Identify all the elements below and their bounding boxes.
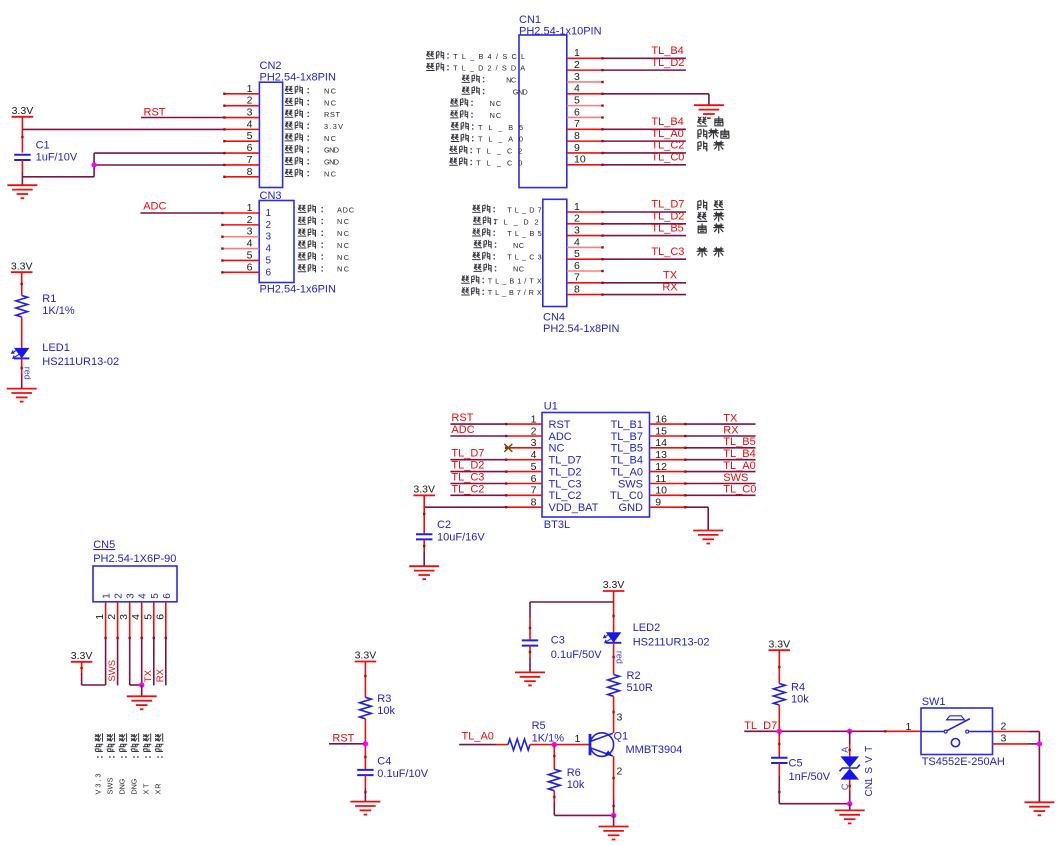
resistor R5	[508, 739, 530, 750]
svg-text:TL_C2: TL_C2	[451, 483, 484, 495]
svg-text:TL_C2: TL_C2	[476, 146, 522, 155]
wire CN5 pin4 to gnd	[141, 638, 143, 685]
svg-text:1: 1	[102, 593, 113, 599]
svg-text:4: 4	[574, 83, 580, 95]
svg-text:C5: C5	[789, 757, 803, 769]
U1 pin 2 (left)	[506, 435, 542, 437]
U1 pin 14 (right)	[650, 447, 686, 449]
svg-text:TL_B4: TL_B4	[723, 448, 755, 460]
wire CN5 pin5 TX	[153, 638, 155, 686]
svg-text:RST: RST	[332, 732, 354, 744]
svg-text:GND: GND	[324, 146, 339, 155]
svg-text:3: 3	[617, 711, 623, 723]
svg-text:5: 5	[574, 95, 580, 107]
svg-text:TL_A0: TL_A0	[462, 730, 494, 742]
wire RST to R3/C4 junction	[329, 743, 365, 745]
svg-text:GND: GND	[619, 502, 644, 514]
svg-text:Q1: Q1	[614, 730, 629, 742]
U1 pin 5 (left)	[506, 471, 542, 473]
svg-text:4: 4	[138, 593, 149, 599]
svg-text:R2: R2	[627, 670, 641, 682]
svg-text:1K/1%: 1K/1%	[532, 732, 565, 744]
svg-text:4: 4	[130, 614, 142, 620]
svg-text:3: 3	[266, 232, 272, 243]
svg-text:3: 3	[126, 593, 137, 599]
no-connect X on U1 pin3	[504, 444, 512, 452]
wire RST to CN2 pin3	[141, 117, 224, 119]
svg-text:10k: 10k	[567, 779, 585, 791]
net label TL_D7 / wire CN4 pin 1	[603, 211, 687, 213]
CN3 pin 5	[222, 259, 259, 261]
net label TL_C0 / wire CN1 pin 10	[603, 164, 686, 166]
ground SW1	[1024, 801, 1054, 803]
svg-text:TL_B5: TL_B5	[611, 443, 643, 455]
CN3 pin 4	[222, 248, 259, 250]
svg-text:TL_D2: TL_D2	[549, 467, 582, 479]
wire U1 pin9 GND to ground	[685, 506, 708, 508]
net label RST / wire U1 pin 1	[450, 423, 506, 425]
svg-text:NC: NC	[324, 134, 336, 143]
U1 pin 3 (left)	[506, 447, 542, 449]
resistor R2	[608, 675, 620, 697]
svg-text:1: 1	[574, 733, 580, 745]
CN1 pin 7	[567, 128, 603, 130]
text button/light chinese CN4	[698, 200, 707, 210]
CN3 pin 6	[222, 271, 259, 273]
svg-text:C1: C1	[36, 139, 50, 151]
svg-text:CN4: CN4	[543, 311, 565, 323]
svg-text:R5: R5	[532, 720, 546, 732]
svg-text:TL_C2: TL_C2	[549, 490, 582, 502]
svg-text:13: 13	[655, 449, 667, 461]
wire U1 pin8 VDD to C2	[424, 506, 506, 508]
svg-text:4: 4	[247, 118, 253, 130]
ground C4	[350, 801, 380, 803]
svg-text:9: 9	[574, 142, 580, 154]
wire TL_D7 to SW1 pin1	[744, 730, 885, 732]
svg-text:1: 1	[266, 208, 272, 219]
svg-text:CN3: CN3	[260, 190, 282, 202]
svg-text:2: 2	[247, 95, 253, 107]
svg-text:R3: R3	[377, 693, 391, 705]
svg-text:NC: NC	[337, 217, 349, 226]
CN5 pin 5	[153, 602, 155, 638]
net label TL_B4 / wire CN1 pin 1	[603, 57, 686, 59]
CN1 pin 1	[567, 57, 603, 59]
CN1 pin 10	[567, 164, 603, 166]
svg-text:R4: R4	[791, 681, 805, 693]
CN2 pin 8	[224, 176, 259, 178]
svg-text:8: 8	[247, 166, 253, 178]
CN2 pin 5	[224, 140, 259, 142]
svg-text:6: 6	[531, 473, 537, 485]
wire CN4 pin8 RX	[603, 294, 687, 296]
net label TL_C3 / wire CN4 pin 5	[603, 258, 687, 260]
svg-text:5: 5	[142, 614, 154, 620]
svg-text:GND: GND	[324, 158, 339, 167]
svg-text:TL_B1: TL_B1	[611, 419, 643, 431]
svg-text:PH2.54-1x10PIN: PH2.54-1x10PIN	[519, 26, 602, 38]
svg-text:3: 3	[574, 71, 580, 83]
U1 pin 13 (right)	[650, 459, 686, 461]
svg-text:TL_B7/RX: TL_B7/RX	[488, 288, 542, 297]
CN2 pin 3	[224, 117, 259, 119]
CN5 pin 2	[117, 602, 119, 638]
svg-text:1: 1	[247, 83, 253, 95]
svg-text:10: 10	[574, 154, 586, 166]
svg-text:1SVT: 1SVT	[864, 746, 875, 784]
svg-text:TL_B4/SCL: TL_B4/SCL	[453, 52, 525, 61]
svg-text:NC: NC	[490, 99, 502, 108]
svg-text:RX: RX	[662, 281, 678, 293]
svg-text:TL_D2: TL_D2	[451, 460, 484, 472]
wire CN5 pin2 SWS	[117, 638, 119, 686]
net label TL_B4 / wire U1 pin 13	[685, 459, 755, 461]
svg-text:TL_C0: TL_C0	[651, 151, 684, 163]
svg-text:TL_B4: TL_B4	[611, 455, 643, 467]
svg-text:3: 3	[118, 614, 130, 620]
LED2	[613, 602, 615, 632]
svg-text:6: 6	[266, 267, 272, 278]
CN5 pin 3	[129, 602, 131, 638]
svg-text:TL_C3: TL_C3	[451, 472, 484, 484]
svg-text:10: 10	[655, 485, 667, 497]
svg-text:8: 8	[574, 130, 580, 142]
pin end markers on verticals	[21, 136, 23, 138]
ground LED1	[7, 388, 37, 390]
svg-text:1uF/10V: 1uF/10V	[36, 151, 78, 163]
svg-text:2: 2	[106, 614, 118, 620]
svg-text:0.1uF/10V: 0.1uF/10V	[377, 768, 428, 780]
svg-text:NC: NC	[337, 229, 349, 238]
svg-text:NC: NC	[513, 265, 524, 274]
svg-text:HS211UR13-02: HS211UR13-02	[42, 356, 119, 368]
svg-text:8: 8	[531, 497, 537, 509]
CN4 pin 2	[567, 223, 603, 225]
U1 pin 15 (right)	[650, 435, 686, 437]
svg-text:TL_C3: TL_C3	[651, 246, 684, 258]
capacitor C3	[522, 639, 538, 641]
svg-text:BT3L: BT3L	[544, 519, 570, 531]
svg-text:4: 4	[266, 244, 272, 255]
CN1 pin 6	[567, 116, 603, 118]
U1 pin 6 (left)	[506, 483, 542, 485]
CN2 pin 7	[224, 164, 259, 166]
CN1 pin 5	[567, 105, 603, 107]
svg-text:10k: 10k	[377, 705, 395, 717]
svg-text:4: 4	[574, 236, 580, 248]
switch SW1	[921, 708, 993, 755]
svg-text:U1: U1	[544, 401, 558, 413]
svg-text:TL_D2: TL_D2	[651, 211, 684, 223]
svg-text:TL_B5: TL_B5	[723, 436, 755, 448]
wire CN2 pin6 to gnd rail	[94, 152, 224, 154]
CN5 pin 5 silkscreen text	[143, 734, 150, 742]
ground Q1	[599, 826, 629, 828]
CN5 pin 4 silkscreen text	[131, 734, 138, 742]
LED1	[14, 348, 29, 359]
svg-text:7: 7	[574, 272, 580, 284]
net label TL_B4 / wire CN1 pin 7	[603, 128, 686, 130]
svg-text:510R: 510R	[627, 682, 653, 694]
capacitor C2	[416, 533, 432, 535]
svg-text:3.3V: 3.3V	[11, 260, 33, 272]
svg-text:RST: RST	[324, 110, 341, 119]
svg-text:2: 2	[617, 766, 623, 778]
ground C3	[515, 671, 545, 673]
svg-text:ADC: ADC	[337, 205, 354, 214]
CN1 pin 4	[567, 93, 603, 95]
net label TL_A0 / wire CN1 pin 8	[603, 140, 686, 142]
ground CN5	[127, 695, 157, 697]
svg-text:DNG: DNG	[130, 778, 139, 794]
svg-text:LED2: LED2	[633, 622, 661, 634]
svg-text:4: 4	[531, 449, 537, 461]
connector CN3	[259, 201, 294, 283]
svg-text:9: 9	[655, 497, 661, 509]
svg-text:R1: R1	[42, 293, 56, 305]
svg-text:PH2.54-1x8PIN: PH2.54-1x8PIN	[543, 323, 619, 335]
net label TL_C3 / wire U1 pin 6	[450, 483, 506, 485]
svg-text:10uF/16V: 10uF/16V	[437, 532, 485, 544]
U1 pin 4 (left)	[506, 459, 542, 461]
svg-text:1nF/50V: 1nF/50V	[789, 771, 831, 783]
svg-text:NC: NC	[506, 75, 516, 84]
svg-text:ADC: ADC	[143, 200, 166, 212]
CN5 pin 4	[141, 602, 143, 638]
svg-text:1: 1	[574, 201, 580, 213]
svg-text:3: 3	[531, 437, 537, 449]
net label TL_D2 / wire CN1 pin 2	[603, 69, 686, 71]
CN4 pin 7	[567, 282, 603, 284]
svg-text:2: 2	[574, 213, 580, 225]
svg-text:V3.3: V3.3	[93, 774, 102, 795]
svg-text:3.3V: 3.3V	[71, 650, 93, 662]
svg-text:6: 6	[574, 106, 580, 118]
svg-text:C4: C4	[377, 756, 391, 768]
svg-text:14: 14	[655, 437, 667, 449]
svg-text:TL_D2/SDA: TL_D2/SDA	[453, 64, 525, 73]
svg-text:16: 16	[655, 413, 667, 425]
svg-text:SWS: SWS	[105, 777, 114, 794]
svg-text:4: 4	[247, 238, 253, 250]
svg-text:TL_D7: TL_D7	[451, 448, 484, 460]
svg-text:15: 15	[655, 425, 667, 437]
svg-text:3.3V: 3.3V	[324, 122, 343, 131]
CN4 pin 8	[567, 294, 603, 296]
svg-text:1: 1	[574, 47, 580, 59]
svg-text:TL_C0: TL_C0	[476, 158, 522, 167]
svg-text:CN: CN	[864, 782, 875, 797]
CN1 pin 9	[567, 152, 603, 154]
CN4 pin 6	[567, 270, 603, 272]
wire CN5 pin3 to gnd	[129, 638, 131, 685]
CN2 pin 6	[224, 152, 259, 154]
svg-text:TL_B4: TL_B4	[651, 116, 683, 128]
connector CN2	[259, 82, 282, 187]
svg-text:TL_C0: TL_C0	[610, 490, 643, 502]
svg-text:NC: NC	[513, 241, 524, 250]
svg-text:red: red	[614, 651, 624, 664]
svg-text:TL_B7: TL_B7	[611, 431, 643, 443]
svg-text:2: 2	[247, 214, 253, 226]
IC U1	[542, 413, 650, 518]
svg-text:8: 8	[574, 284, 580, 296]
svg-text:NC: NC	[337, 253, 349, 262]
svg-text:TL_D7: TL_D7	[744, 720, 777, 732]
svg-text:3.3V: 3.3V	[768, 638, 790, 650]
net label TL_B5 / wire U1 pin 14	[685, 447, 755, 449]
U1 pin 16 (right)	[650, 423, 686, 425]
ground CN1 pin4	[694, 104, 724, 106]
CN1 pin 8	[567, 140, 603, 142]
svg-text:TL_A0: TL_A0	[478, 135, 523, 144]
text red indicator chinese	[697, 117, 707, 126]
CN2 pin 4	[224, 128, 259, 130]
wire CN5 pin1 to 3.3V	[105, 638, 107, 685]
svg-text:2: 2	[114, 593, 125, 599]
svg-text:TL_C3: TL_C3	[507, 253, 542, 262]
svg-text:TL_D7: TL_D7	[549, 455, 582, 467]
net label TX / wire U1 pin 16	[685, 423, 755, 425]
ground U1 pin9	[693, 530, 723, 532]
wire 3.3V rail to CN2 pin4	[21, 117, 23, 153]
CN5 pin 1 silkscreen text	[95, 734, 102, 742]
svg-text:6: 6	[247, 261, 253, 273]
svg-text:SWS: SWS	[723, 472, 748, 484]
junction dot	[91, 162, 96, 167]
net label TL_D2 / wire U1 pin 5	[450, 471, 506, 473]
svg-text:6: 6	[162, 593, 173, 599]
net label SWS / wire U1 pin 11	[685, 483, 755, 485]
svg-text:1: 1	[247, 202, 253, 214]
wire ADC to CN3 pin1	[140, 212, 222, 214]
net label TL_B5 / wire CN4 pin 3	[603, 235, 687, 237]
CN1 pin 3	[567, 81, 603, 83]
net label TL_A0 / wire U1 pin 12	[685, 471, 755, 473]
wire Q1 emitter	[613, 756, 615, 799]
svg-text:10k: 10k	[791, 694, 809, 706]
U1 pin 11 (right)	[650, 483, 686, 485]
svg-text:5: 5	[266, 255, 272, 266]
CN4 pin 1	[567, 211, 603, 213]
connector CN4	[543, 199, 567, 306]
svg-text:PH2.54-1x6PIN: PH2.54-1x6PIN	[260, 283, 336, 295]
svg-text:TL_D2: TL_D2	[494, 217, 539, 226]
svg-text:5: 5	[531, 461, 537, 473]
svg-text:NC: NC	[324, 86, 336, 95]
svg-text:5: 5	[150, 593, 161, 599]
svg-text:6: 6	[574, 260, 580, 272]
svg-text:HS211UR13-02: HS211UR13-02	[633, 637, 710, 649]
svg-text:5: 5	[247, 249, 253, 261]
CN5 pin 6 silkscreen text	[155, 734, 162, 742]
svg-text:RST: RST	[549, 419, 571, 431]
U1 pin 9 (right)	[650, 506, 686, 508]
svg-text:RX: RX	[723, 424, 739, 436]
svg-text:RX: RX	[155, 668, 166, 682]
svg-text:CN5: CN5	[93, 539, 115, 551]
svg-text:C2: C2	[437, 519, 451, 531]
svg-text:XT: XT	[142, 783, 151, 795]
svg-text:NC: NC	[549, 443, 565, 455]
svg-text:TS4552E-250AH: TS4552E-250AH	[922, 756, 1005, 768]
svg-text:TL_A0: TL_A0	[651, 128, 683, 140]
net label TL_C2 / wire CN1 pin 9	[603, 152, 686, 154]
svg-text:1: 1	[531, 413, 537, 425]
wire R5 to Q1 base	[530, 744, 590, 746]
svg-text:TX: TX	[143, 669, 154, 682]
net label TL_D2 / wire CN4 pin 2	[603, 223, 687, 225]
wire 3.3V to C3	[530, 601, 614, 603]
CN3 pin 2	[222, 224, 259, 226]
svg-text:GND: GND	[513, 87, 528, 96]
svg-text:VDD_BAT: VDD_BAT	[549, 502, 599, 514]
svg-text:0.1uF/50V: 0.1uF/50V	[551, 649, 602, 661]
SW1 internal symbol	[921, 731, 944, 733]
wire CN5 pin6 RX	[165, 638, 167, 686]
capacitor C4	[357, 769, 373, 771]
CN5 pin 1	[105, 602, 107, 638]
CN3 pin 1	[222, 212, 259, 214]
CN5 pin 2 silkscreen text	[107, 734, 114, 742]
resistor R3	[360, 697, 372, 719]
wire R6 to emitter junction	[554, 814, 613, 816]
svg-text:ADC: ADC	[549, 431, 572, 443]
svg-text:1K/1%: 1K/1%	[42, 305, 75, 317]
svg-text:C3: C3	[551, 635, 565, 647]
net label TL_C2 / wire U1 pin 7	[450, 494, 506, 496]
svg-text:TL_C0: TL_C0	[723, 484, 756, 496]
svg-text:DNG: DNG	[118, 778, 127, 794]
svg-text:PH2.54-1X6P-90: PH2.54-1X6P-90	[93, 553, 176, 565]
svg-text:7: 7	[574, 118, 580, 130]
svg-text:1: 1	[94, 614, 106, 620]
CN4 pin 3	[567, 235, 603, 237]
wire R2 to Q1 collector	[613, 696, 615, 733]
svg-text:TL_B5: TL_B5	[651, 222, 683, 234]
svg-text:red: red	[22, 367, 32, 380]
wire CN2 pin7 to gnd rail	[94, 164, 224, 166]
CN5 pin 3 silkscreen text	[119, 734, 126, 742]
svg-text:TL_B5: TL_B5	[507, 229, 542, 238]
svg-text:TL_D2: TL_D2	[651, 57, 684, 69]
svg-text:SW1: SW1	[922, 696, 946, 708]
svg-text:NC: NC	[337, 241, 349, 250]
svg-text:3: 3	[574, 225, 580, 237]
U1 pin 12 (right)	[650, 471, 686, 473]
wire SW1 to ground	[1038, 732, 1040, 803]
connector CN5	[93, 566, 177, 602]
svg-text:3: 3	[247, 107, 253, 119]
svg-text:CN1: CN1	[519, 14, 541, 26]
wire CN4 pin7 TX	[603, 282, 687, 284]
svg-text:NC: NC	[490, 111, 502, 120]
svg-text:5: 5	[247, 130, 253, 142]
svg-text:TL_D7: TL_D7	[651, 199, 684, 211]
svg-text:TL_D7: TL_D7	[507, 206, 542, 215]
net label TL_C0 / wire U1 pin 10	[685, 494, 755, 496]
svg-text:TL_B4: TL_B4	[651, 45, 683, 57]
svg-text:2: 2	[266, 220, 272, 231]
svg-text:ADC: ADC	[451, 424, 474, 436]
wire TL_A0 to R5	[459, 744, 496, 746]
CN2 pin 1	[224, 93, 259, 95]
svg-text:TL_A0: TL_A0	[611, 467, 643, 479]
svg-text:3.3V: 3.3V	[12, 105, 34, 117]
svg-text:MMBT3904: MMBT3904	[626, 744, 683, 756]
svg-text:1: 1	[906, 721, 912, 733]
